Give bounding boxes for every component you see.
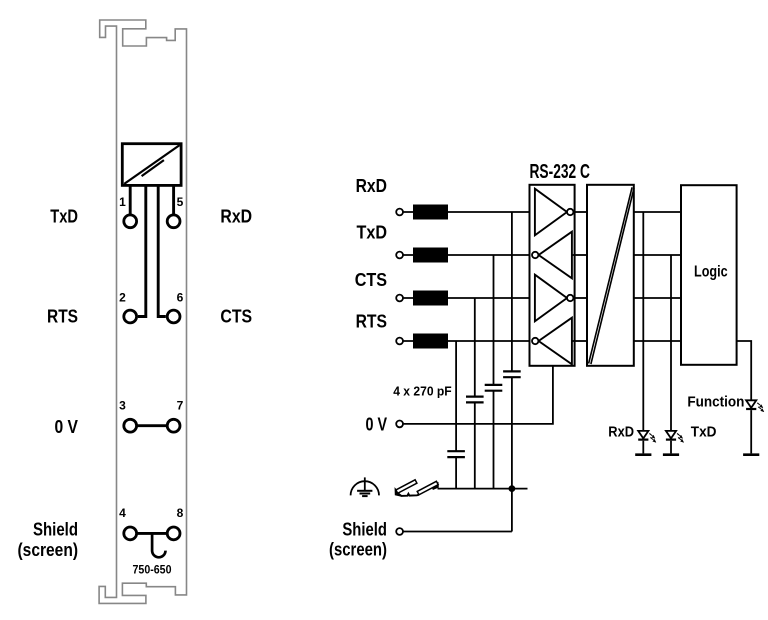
- svg-text:7: 7: [177, 398, 184, 412]
- pin stub wires from interface box: [130, 185, 173, 316]
- capacitor C4 vertical from RTS wire: [447, 341, 465, 489]
- svg-text:TxD: TxD: [357, 221, 388, 242]
- svg-text:1: 1: [119, 195, 126, 209]
- svg-text:0 V: 0 V: [366, 413, 388, 434]
- RS-232 driver block U1: [530, 185, 575, 366]
- pin 8: [167, 506, 183, 540]
- terminal circle 0V: [396, 421, 403, 428]
- label RS-232 C: [530, 161, 590, 183]
- svg-text:CTS: CTS: [355, 269, 387, 290]
- buffer U1c (CTS, right-pointing): [535, 275, 574, 322]
- logic block: [681, 185, 737, 365]
- svg-text:RTS: RTS: [356, 310, 387, 331]
- capacitor C1 vertical from RxD wire: [503, 212, 521, 489]
- wire TxD U1 to isolation: [572, 254, 587, 256]
- bus interface box with diagonal: [122, 144, 181, 186]
- signal label RTS: [356, 310, 387, 331]
- wire to TxD LED: [670, 255, 672, 431]
- ground bus wire: [438, 488, 528, 490]
- terminal label 0 V (schematic): [366, 413, 388, 434]
- svg-text:RxD: RxD: [356, 175, 387, 196]
- LED RxD: [635, 431, 656, 455]
- wire RxD: [403, 211, 535, 213]
- capacitor C3 vertical from CTS wire: [466, 298, 484, 489]
- svg-text:3: 3: [119, 398, 126, 412]
- buffer U1d (RTS, left-pointing): [532, 318, 572, 365]
- signal label RxD: [356, 175, 387, 196]
- svg-text:6: 6: [177, 290, 184, 304]
- signal label TxD: [357, 221, 388, 242]
- buffer U1a (RxD, right-pointing): [535, 189, 574, 236]
- terminal circle RxD: [396, 209, 403, 216]
- svg-text:(screen): (screen): [18, 539, 79, 560]
- wire RTS isolation to logic: [634, 340, 681, 342]
- wire pin3 to pin7: [137, 424, 166, 427]
- filter choke RxD: [413, 205, 448, 220]
- svg-text:CTS: CTS: [220, 305, 252, 326]
- wire RTS: [403, 340, 532, 342]
- LED label RxD: [608, 424, 634, 441]
- pin 4: [119, 506, 136, 540]
- wire to Function LED: [737, 341, 752, 400]
- svg-text:RTS: RTS: [47, 305, 78, 326]
- pin 2: [119, 290, 136, 323]
- svg-text:RxD: RxD: [220, 205, 252, 226]
- wire CTS: [403, 297, 535, 299]
- svg-text:750-650: 750-650: [133, 563, 172, 577]
- wire TxD isolation to logic: [634, 254, 681, 256]
- LED label Function: [687, 393, 744, 410]
- svg-text:Shield: Shield: [33, 519, 78, 540]
- wire 0V: [403, 366, 553, 424]
- svg-text:Logic: Logic: [694, 264, 728, 281]
- pin 1: [119, 195, 136, 228]
- svg-text:4: 4: [119, 506, 126, 520]
- terminal label Shield (screen) (schematic): [329, 518, 387, 559]
- svg-text:TxD: TxD: [691, 424, 717, 441]
- terminal label 0 V (module): [55, 416, 79, 437]
- wire TxD: [403, 254, 532, 256]
- pin 7: [167, 398, 183, 432]
- wire to RxD LED: [642, 212, 644, 431]
- wire RTS U1 to isolation: [572, 340, 587, 342]
- pin 3: [119, 398, 136, 432]
- capacitor C2 vertical from TxD wire: [485, 255, 503, 489]
- svg-text:Function: Function: [687, 393, 744, 410]
- svg-text:Shield: Shield: [342, 518, 387, 539]
- LED label TxD: [691, 424, 717, 441]
- terminal label CTS (module): [220, 305, 252, 326]
- svg-text:4 x 270 pF: 4 x 270 pF: [393, 384, 452, 399]
- DIN rail symbol: [395, 480, 438, 496]
- svg-text:0 V: 0 V: [55, 416, 79, 437]
- svg-text:5: 5: [177, 195, 184, 209]
- terminal label Shield (screen) (module): [18, 519, 79, 560]
- svg-text:RS-232 C: RS-232 C: [530, 161, 590, 183]
- svg-text:RxD: RxD: [608, 424, 634, 441]
- wire RxD U1 to isolation: [573, 211, 587, 213]
- galvanic isolation block: [587, 185, 634, 366]
- terminal label RTS (module): [47, 305, 78, 326]
- buffer U1b (TxD, left-pointing): [532, 232, 572, 279]
- terminal circle CTS: [396, 295, 403, 302]
- junction node shield/ground: [509, 485, 516, 492]
- earth ground symbol: [351, 477, 379, 496]
- terminal label TxD (module): [50, 205, 78, 226]
- signal label CTS: [355, 269, 387, 290]
- value label 4 x 270 pF: [393, 384, 452, 399]
- terminal circle shield: [396, 528, 403, 535]
- filter choke TxD: [413, 248, 448, 263]
- terminal label RxD (module): [220, 205, 252, 226]
- LED TxD: [663, 431, 684, 455]
- module housing outline 750-650: [99, 20, 186, 603]
- LED Function: [743, 400, 764, 454]
- filter choke CTS: [413, 291, 448, 306]
- svg-text:TxD: TxD: [50, 205, 78, 226]
- terminal circle TxD: [396, 252, 403, 259]
- wire shield: [403, 489, 512, 532]
- wire RxD isolation to logic: [634, 211, 681, 213]
- svg-text:(screen): (screen): [329, 538, 387, 559]
- wire pin4 to pin8 with shield hook: [137, 533, 166, 557]
- filter choke RTS: [413, 334, 448, 349]
- pin 6: [167, 290, 183, 323]
- pin 5: [167, 195, 183, 228]
- wire CTS U1 to isolation: [573, 297, 587, 299]
- svg-text:2: 2: [119, 290, 126, 304]
- wire CTS isolation to logic: [634, 297, 681, 299]
- label 750-650: [133, 563, 172, 577]
- terminal circle RTS: [396, 338, 403, 345]
- svg-text:8: 8: [177, 506, 184, 520]
